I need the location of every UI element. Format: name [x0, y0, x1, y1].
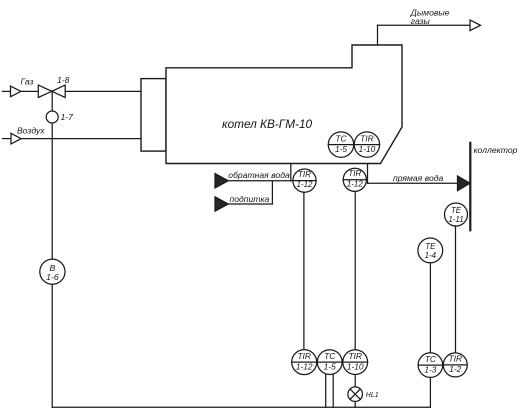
lamp HL1 [348, 387, 363, 402]
svg-text:1-8: 1-8 [57, 75, 70, 85]
wire air inlet stub [3, 138, 12, 140]
svg-text:подпитка: подпитка [230, 194, 270, 204]
wire bottom bus [52, 406, 430, 408]
wire TIR 1-10 to lamp [354, 375, 356, 387]
wire TIR 1-12 return water down to panel TIR 1-12 [303, 192, 305, 349]
wire TC 1-3 to bus [429, 377, 431, 407]
svg-text:1-5: 1-5 [335, 144, 347, 154]
node return water arrow [215, 174, 228, 188]
node makeup water arrow [215, 197, 228, 211]
collector header line [469, 143, 471, 230]
svg-text:коллектор: коллектор [474, 145, 518, 155]
instrument TC 1-5 (boiler) [328, 132, 353, 157]
svg-text:TIR: TIR [449, 354, 463, 364]
actuator 1-7 [46, 111, 58, 123]
svg-text:TE: TE [451, 206, 462, 215]
svg-text:газы: газы [411, 16, 431, 26]
wire makeup water riser [271, 181, 273, 204]
svg-text:1-12: 1-12 [296, 180, 313, 189]
svg-text:прямая вода: прямая вода [393, 173, 443, 183]
wire return water line [228, 180, 293, 182]
wire chimney riser [377, 25, 379, 45]
svg-text:1-12: 1-12 [347, 179, 364, 188]
node supply water arrow [458, 176, 471, 191]
svg-text:TC: TC [335, 133, 347, 143]
burner box [141, 79, 166, 152]
node air source arrow [11, 133, 21, 144]
svg-text:1-3: 1-3 [424, 364, 436, 374]
wire TIR 1-12 supply water down to panel TIR 1-10 [354, 191, 356, 349]
wire TE 1-11 down to TIR 1-2 [455, 226, 457, 353]
wire 1-7 down to B 1-6 [51, 123, 53, 259]
wire B 1-6 down to bottom bus [51, 284, 53, 407]
instrument B 1-6 [40, 259, 65, 284]
svg-text:1-7: 1-7 [61, 112, 75, 122]
svg-text:1-12: 1-12 [296, 361, 313, 371]
svg-text:котел КВ-ГМ-10: котел КВ-ГМ-10 [222, 117, 313, 131]
svg-text:TE: TE [425, 242, 436, 251]
instrument TIR 1-12 (return water) [293, 169, 316, 192]
svg-text:HL1: HL1 [366, 392, 379, 399]
boiler KV-GM-10 outline [166, 45, 402, 164]
svg-text:Воздух: Воздух [17, 126, 45, 136]
svg-text:1-6: 1-6 [46, 272, 59, 282]
wire TE 1-4 down to TC 1-3 [429, 263, 431, 353]
svg-text:1-10: 1-10 [347, 361, 364, 371]
instrument TC 1-5 (panel) [317, 350, 342, 375]
node flue gas arrow [470, 20, 481, 31]
svg-text:TC: TC [425, 354, 437, 364]
wire valve to burner (gas line) [65, 90, 141, 92]
instrument TIR 1-10 (panel) [343, 350, 368, 375]
svg-text:TIR: TIR [348, 169, 361, 178]
svg-text:1-5: 1-5 [324, 361, 336, 371]
svg-text:TIR: TIR [360, 133, 374, 143]
instrument TIR 1-10 (boiler) [354, 132, 379, 157]
wire TC 1-5 to bus (left lead) [325, 374, 327, 407]
svg-text:Газ: Газ [21, 77, 34, 87]
svg-text:1-4: 1-4 [425, 251, 437, 260]
wire supply water line [368, 182, 459, 184]
wire gas inlet stub [3, 90, 11, 92]
wire valve stem [51, 91, 53, 111]
svg-text:1-10: 1-10 [359, 144, 376, 154]
instrument TIR 1-2 [443, 353, 467, 377]
svg-text:обратная вода: обратная вода [228, 170, 290, 180]
instrument TE 1-4 [418, 238, 443, 263]
wire TC 1-5 to bus (right lead) [332, 374, 334, 407]
svg-text:TC: TC [324, 351, 336, 361]
wire supply water drop from boiler [367, 164, 369, 184]
valve 1-8 [38, 85, 65, 97]
wire air line to burner [21, 138, 141, 140]
svg-text:1-2: 1-2 [449, 364, 461, 374]
instrument TC 1-3 [418, 353, 443, 378]
instrument TIR 1-12 (supply water) [343, 168, 366, 191]
wire makeup water line [228, 203, 272, 205]
svg-text:TIR: TIR [297, 351, 311, 361]
instrument TE 1-11 [445, 203, 468, 226]
svg-text:1-11: 1-11 [448, 215, 463, 224]
wire return water drop from boiler [290, 164, 292, 181]
wire flue gas line [378, 24, 471, 26]
svg-text:TIR: TIR [298, 170, 311, 179]
wire lamp to bus [354, 402, 356, 408]
node gas source arrow [11, 86, 22, 97]
instrument TIR 1-12 (panel) [292, 350, 317, 375]
svg-text:TIR: TIR [348, 351, 362, 361]
wire gas arrow to valve [21, 90, 39, 92]
